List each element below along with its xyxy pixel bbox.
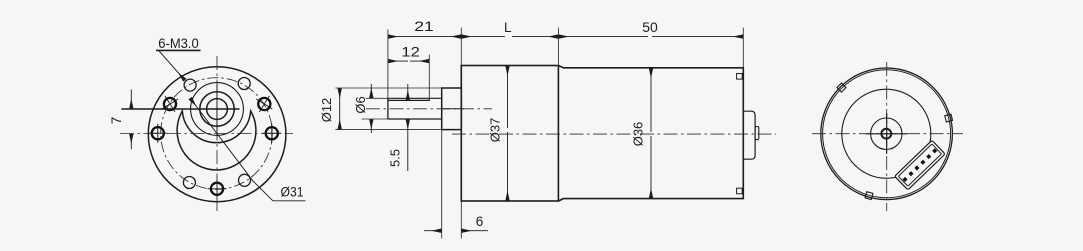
svg-text:Ø37: Ø37 xyxy=(488,118,503,143)
horizontal centerline xyxy=(120,133,293,135)
dim 6 xyxy=(424,230,488,232)
svg-text:6: 6 xyxy=(476,214,484,229)
M3 tapped holes (bold with cross ticks) xyxy=(148,91,281,198)
rear bearing boss xyxy=(743,111,755,159)
shaft pilot circle xyxy=(191,83,244,136)
svg-text:Ø31: Ø31 xyxy=(281,185,304,200)
crimp tab upper-left xyxy=(837,83,846,92)
motor centerline xyxy=(452,133,776,135)
dim Ø36 xyxy=(650,68,652,199)
vertical centerline xyxy=(216,56,218,212)
svg-text:5.5: 5.5 xyxy=(388,149,403,167)
brush cap bottom xyxy=(737,188,743,194)
output shaft Ø6 xyxy=(388,98,442,119)
can outer circle xyxy=(821,68,953,200)
center crosshair solid xyxy=(866,113,907,154)
bearing boss circle xyxy=(871,118,902,149)
dim Ø6 xyxy=(370,84,372,133)
dimension 7 xyxy=(130,90,132,150)
output boss Ø12 xyxy=(442,88,462,130)
crimp tab bottom xyxy=(865,192,873,200)
shaft centerline xyxy=(366,108,492,110)
dim Ø37 xyxy=(507,66,509,202)
svg-text:L: L xyxy=(504,20,512,35)
shaft end circle xyxy=(881,129,891,139)
tapped hole 3:00 xyxy=(262,124,281,143)
tapped hole 6:00 xyxy=(208,179,227,198)
svg-text:12: 12 xyxy=(401,44,420,59)
extension lines xyxy=(335,28,743,239)
crimp tab right xyxy=(945,114,953,122)
tapped hole 9:00 xyxy=(148,124,167,143)
plain hole 11:00 xyxy=(184,79,196,91)
connector xyxy=(895,140,945,190)
dim 12 xyxy=(388,60,429,62)
leader Ø31 xyxy=(190,98,306,201)
shaft circle (Ø6) xyxy=(207,99,228,120)
shaft top edge xyxy=(388,97,442,99)
svg-text:21: 21 xyxy=(414,19,434,34)
shaft bottom edge xyxy=(388,118,442,120)
gearbox body xyxy=(461,66,558,202)
horizontal centerline xyxy=(812,133,963,135)
shaft boss circle (Ø12) xyxy=(200,92,234,126)
shaft flat xyxy=(388,98,429,100)
plain hole 5:00 xyxy=(239,174,251,186)
shaft centerline solid segment in boss xyxy=(441,108,464,110)
shaft end xyxy=(387,98,389,119)
shaft axis solid line xyxy=(121,108,239,110)
crescent groove xyxy=(177,111,256,170)
svg-text:Ø12: Ø12 xyxy=(319,98,334,123)
vertical centerline xyxy=(886,62,888,211)
dim 50 xyxy=(558,36,743,38)
dim Ø12 xyxy=(339,88,341,130)
motor body xyxy=(558,66,743,202)
plain hole 7:00 xyxy=(183,177,195,189)
dim 5.5 xyxy=(407,84,409,171)
end cap circle xyxy=(842,89,931,178)
flange outer circle xyxy=(148,67,286,202)
leader 6-M3.0 xyxy=(156,50,201,80)
dim L xyxy=(461,36,558,38)
bolt circle (centerline) xyxy=(161,78,273,190)
brush cap top xyxy=(737,74,743,80)
svg-text:Ø6: Ø6 xyxy=(353,96,368,113)
can rolled lip xyxy=(823,70,951,198)
svg-text:6-M3.0: 6-M3.0 xyxy=(158,36,199,51)
connector pins xyxy=(902,148,937,182)
svg-text:7: 7 xyxy=(109,117,124,125)
tapped hole 2:00 xyxy=(251,91,277,117)
boss vertical center tick xyxy=(216,84,218,132)
rear stud xyxy=(755,127,759,140)
tapped hole 10:00 xyxy=(157,91,183,117)
plain hole 1:00 xyxy=(238,78,250,90)
svg-text:50: 50 xyxy=(642,20,658,35)
dim 21 xyxy=(388,36,461,38)
